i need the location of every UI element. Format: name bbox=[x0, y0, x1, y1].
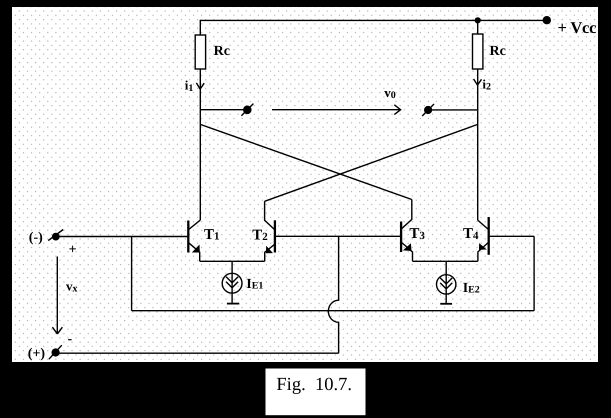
svg-text:Rc: Rc bbox=[490, 44, 506, 59]
svg-text:(+): (+) bbox=[28, 346, 46, 361]
svg-text:-: - bbox=[68, 332, 73, 347]
svg-text:+: + bbox=[69, 243, 77, 258]
svg-text:Fig. 10.7.: Fig. 10.7. bbox=[276, 375, 352, 395]
svg-text:+ Vcc: + Vcc bbox=[558, 18, 597, 37]
svg-text:(-): (-) bbox=[29, 231, 43, 246]
svg-text:Rc: Rc bbox=[214, 44, 230, 59]
